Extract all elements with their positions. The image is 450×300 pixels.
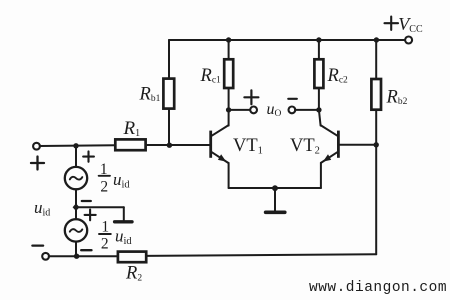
svg-text:Rb1: Rb1 — [139, 85, 161, 105]
ground left — [115, 220, 132, 223]
svg-text:Rb2: Rb2 — [386, 88, 408, 108]
terminal input bottom — [42, 253, 49, 260]
wire Rc1 top — [228, 40, 230, 59]
svg-text:VT2: VT2 — [290, 136, 320, 157]
wire +Vcc supply rail — [169, 39, 405, 41]
label +Vcc — [385, 14, 423, 35]
wire right branch vertical — [375, 110, 377, 255]
junction Rc2/output — [316, 107, 321, 112]
transistor VT1 emitter with arrow — [212, 152, 229, 188]
svg-text:uO: uO — [267, 101, 282, 119]
label 1/2 uid lower — [101, 219, 132, 253]
label + input top — [31, 157, 44, 170]
ground middle — [266, 211, 285, 215]
wire R1 to VT1 base — [146, 144, 210, 146]
transistor VT1 collector — [212, 110, 229, 136]
wire output right — [295, 109, 319, 111]
resistor Rc1 — [224, 59, 233, 88]
label Rb1 — [139, 85, 161, 105]
wire output left — [229, 109, 251, 111]
label 1/2 uid upper — [100, 161, 131, 196]
svg-text:2: 2 — [100, 178, 108, 195]
label - input bottom — [32, 244, 43, 246]
resistor R2 — [118, 252, 146, 263]
label - output — [288, 98, 297, 100]
wire ground tap horizontal — [76, 206, 124, 208]
wire VT2 base — [340, 144, 376, 146]
label R1 — [123, 118, 141, 139]
wire Rb1 top (rail to Rb1) — [168, 40, 170, 79]
svg-text:R1: R1 — [123, 118, 141, 139]
wire ground tap vertical — [123, 207, 125, 220]
terminal input top — [33, 143, 40, 150]
svg-text:2: 2 — [101, 235, 109, 252]
transistor VT1 base bar — [209, 131, 212, 158]
label VT2 — [290, 136, 320, 157]
svg-text:uid: uid — [34, 198, 50, 219]
terminal output + — [250, 107, 257, 114]
junction VT2 base / right branch — [374, 142, 379, 147]
wire Rb2 top — [375, 40, 377, 79]
source half-uid lower — [65, 219, 87, 241]
svg-text:uid: uid — [115, 227, 132, 248]
wire Rc2 top — [318, 40, 320, 59]
resistor R1 — [115, 139, 145, 150]
junction Rc1/output — [226, 107, 231, 112]
svg-text:VT1: VT1 — [233, 136, 263, 157]
label Rc1 — [200, 66, 222, 86]
transistor VT2 base bar — [337, 131, 340, 158]
resistor Rc2 — [314, 59, 323, 88]
label - source1 bottom — [82, 200, 91, 202]
transistor VT2 collector — [319, 110, 337, 136]
wire source branch vertical upper — [75, 146, 77, 167]
junction bottom rail/source branch — [74, 254, 79, 259]
label Rc2 — [327, 66, 349, 86]
label watermark www.diangon.com — [309, 280, 447, 296]
wire input top to R1 — [40, 144, 116, 147]
wire source2 to bottom rail — [75, 242, 77, 257]
wire bottom rail right — [146, 254, 376, 256]
label + output — [244, 90, 258, 104]
svg-text:Rc1: Rc1 — [200, 66, 222, 86]
label R2 — [125, 264, 142, 284]
junction rail/Rc1 — [226, 37, 231, 42]
label + source1 — [83, 151, 94, 161]
label uid input — [34, 198, 50, 219]
transistor VT2 emitter with arrow — [321, 152, 337, 188]
junction emitter rail/ground — [272, 185, 278, 191]
svg-text:Rc2: Rc2 — [327, 66, 349, 86]
wire Rb1 bottom (Rb1 to base node) — [168, 109, 170, 146]
svg-text:R2: R2 — [125, 264, 142, 284]
junction mid sources (diamond) — [73, 203, 80, 211]
junction rail/Rc2 — [316, 37, 321, 42]
junction rail/Rb2 — [374, 37, 379, 42]
terminal output - — [289, 107, 296, 114]
wire Rc2 bottom to output node — [318, 88, 320, 110]
wire ground stem — [274, 188, 276, 211]
terminal +Vcc — [405, 37, 412, 44]
resistor Rb1 — [163, 79, 174, 109]
label - source2 bottom — [81, 249, 91, 251]
svg-text:VCC: VCC — [398, 14, 423, 35]
wire bottom rail left — [49, 255, 118, 257]
source half-uid upper — [65, 167, 87, 189]
junction Rb1/base wire — [167, 143, 172, 148]
wire emitter rail — [229, 187, 321, 189]
label uO — [267, 101, 282, 119]
label VT1 — [233, 136, 263, 157]
label + source2 top — [85, 210, 96, 221]
label Rb2 — [386, 88, 408, 108]
junction input/source branch — [73, 143, 78, 148]
svg-text:www.diangon.com: www.diangon.com — [309, 280, 447, 296]
wire Rc1 bottom to output node — [228, 88, 230, 110]
wire source1 to source2 — [75, 189, 77, 219]
svg-text:uid: uid — [113, 170, 130, 191]
resistor Rb2 — [371, 79, 381, 110]
